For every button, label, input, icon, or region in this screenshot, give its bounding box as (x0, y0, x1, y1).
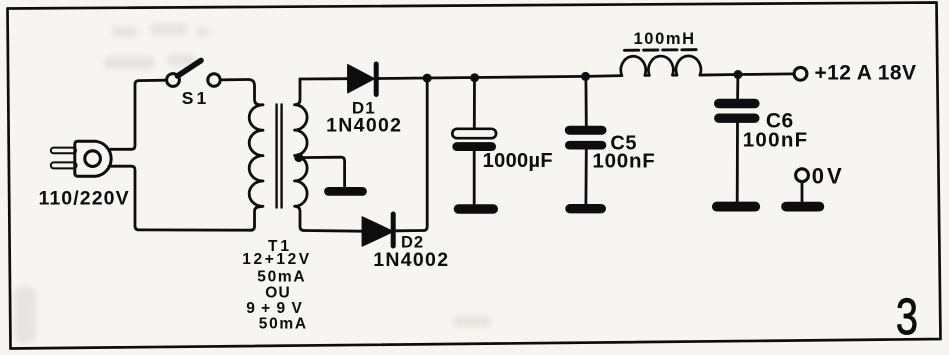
svg-text:1N4002: 1N4002 (326, 114, 402, 136)
wire plug lower cord down to bottom rail (109, 166, 252, 230)
wire bus after inductor to +12V terminal (700, 74, 794, 75)
svg-text:1000µF: 1000µF (483, 150, 553, 172)
wire T1 secondary bottom to D2 (304, 229, 362, 232)
transformer T1 secondary winding (295, 79, 308, 230)
svg-text:100mH: 100mH (634, 30, 696, 48)
transformer T1 core (277, 105, 282, 208)
svg-text:12+12V: 12+12V (242, 251, 311, 268)
terminal 0V output (796, 169, 809, 202)
terminal +12 to 18V output (794, 67, 807, 80)
wire main positive bus D1 to C5 (376, 76, 622, 79)
svg-text:OU: OU (265, 285, 291, 302)
capacitor C6 (719, 75, 755, 203)
svg-text:S1: S1 (182, 88, 209, 108)
node junction dot (C6 branch) (734, 70, 743, 79)
node junction dot (D2 branch) (423, 74, 432, 83)
capacitor C5 (569, 76, 602, 204)
wire center tap to ground (299, 157, 345, 187)
label T1 value block (242, 238, 311, 333)
ground (1000uF) (459, 204, 494, 214)
svg-text:1N4002: 1N4002 (373, 249, 449, 271)
svg-text:50mA: 50mA (257, 269, 306, 286)
svg-text:3: 3 (896, 288, 918, 345)
plug P1 (51, 141, 111, 176)
wire T1 secondary top to D1 (300, 77, 348, 80)
svg-text:50mA: 50mA (259, 316, 308, 333)
capacitor 1000uF (electrolytic) (452, 78, 496, 205)
switch S1 (167, 61, 221, 87)
node: T1 center tap junction dot (294, 153, 303, 162)
diode D1 (348, 64, 376, 95)
wire bus down to D2 cathode (396, 78, 427, 231)
wire plug upper cord to switch riser (111, 80, 167, 149)
svg-text:110/220V: 110/220V (38, 188, 129, 210)
ground (C5) (570, 204, 601, 213)
ground (C6) (717, 202, 755, 212)
inductor L1 100mH (621, 56, 701, 76)
wire S1 to transformer primary + primary winding of T1 (220, 79, 263, 230)
svg-text:0V: 0V (812, 164, 845, 189)
svg-text:100nF: 100nF (592, 149, 655, 172)
svg-text:9+9V: 9+9V (246, 300, 308, 317)
ground (0V terminal) (786, 202, 819, 212)
inductor core dashed line (625, 48, 700, 52)
svg-text:100nF: 100nF (743, 128, 809, 151)
svg-text:+12 A 18V: +12 A 18V (815, 62, 917, 85)
diode D2 (362, 214, 393, 246)
node junction dot (1000uF branch) (470, 73, 479, 82)
ground (transformer center tap) (329, 187, 363, 196)
node junction dot (C5 branch) (581, 72, 590, 81)
